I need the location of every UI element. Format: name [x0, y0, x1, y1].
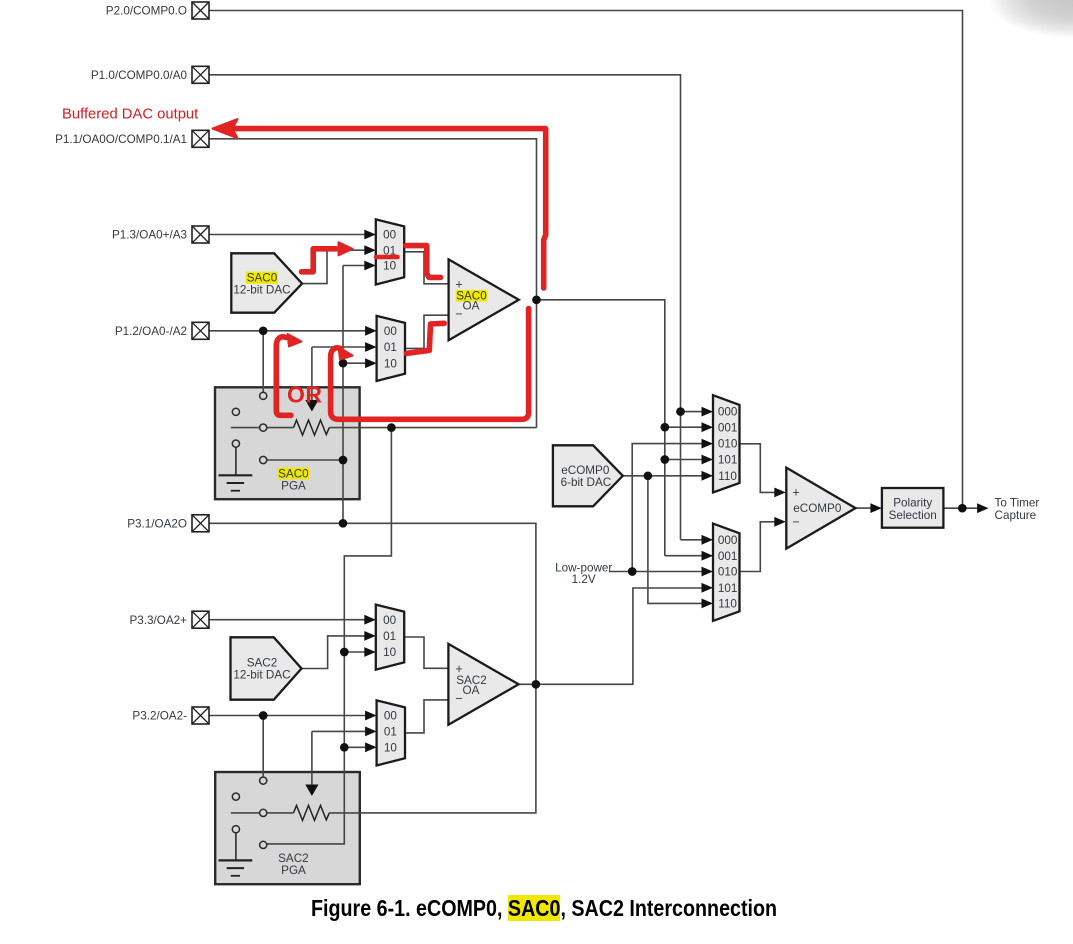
node timer capture junction [958, 504, 967, 513]
svg-text:12-bit DAC: 12-bit DAC [233, 669, 290, 682]
svg-text:00: 00 [383, 229, 397, 242]
mux U3A eCOMP0 + input mux [702, 395, 740, 492]
svg-text:To Timer: To Timer [995, 497, 1040, 510]
page corner shading [963, 0, 1073, 58]
ground GND1 in SAC0 PGA [219, 447, 253, 491]
mux U1B inverting input mux of SAC0 [365, 316, 405, 381]
svg-text:Capture: Capture [995, 509, 1037, 522]
block polarity selection [882, 488, 944, 528]
wire PGA0 switch row3 to cascade node [267, 459, 343, 461]
wire OA0 feedback horizontal to PGA resistor [329, 427, 536, 429]
svg-text:Polarity: Polarity [893, 497, 932, 510]
svg-text:−: − [455, 692, 462, 706]
annotation red trace DAC to mux1 01 [302, 242, 353, 271]
annotation red trace mux1 output [406, 246, 441, 278]
port pad P2.0/COMP0.O [106, 2, 209, 19]
SAC0 12-bit DAC block [231, 253, 302, 312]
resistor R2 SAC2 PGA feedback [294, 805, 330, 820]
svg-text:10: 10 [383, 260, 397, 273]
svg-text:PGA: PGA [281, 479, 306, 492]
svg-text:10: 10 [384, 741, 398, 754]
svg-text:OA: OA [463, 684, 480, 697]
wire mux6 01 to PGA2 resistor tap [312, 731, 368, 785]
svg-text:10: 10 [383, 646, 397, 659]
svg-text:eCOMP0: eCOMP0 [793, 502, 842, 515]
svg-text:PGA: PGA [281, 864, 306, 877]
node cascade to mux6 10 junction [340, 743, 349, 752]
arrow eCOMP0 output into polarity selection [870, 503, 882, 513]
port pad P3.2/OA2- [132, 707, 209, 724]
svg-text:Buffered DAC output: Buffered DAC output [62, 107, 198, 123]
node OA0 out to mux3 101 junction [660, 455, 669, 464]
wire OA2O cascade to mux1 10 / mux2 10 / PGA0 tap [343, 266, 368, 524]
wire PGA0 row2 left segment [231, 427, 294, 429]
node P1.2 branch junction [259, 326, 268, 335]
svg-text:101: 101 [718, 454, 738, 467]
wire mux6 output to OA2 - input [405, 700, 448, 733]
wire mux2 output to OA0 - input [405, 315, 449, 348]
wire P1.3/OA0+ to mux1 00 [209, 234, 367, 236]
node 1.2V reference junction [628, 567, 637, 576]
wire OA2 feedback to PGA2 resistor [329, 684, 536, 813]
wire P3.3/OA2+ to mux5 00 [209, 619, 367, 621]
svg-text:000: 000 [718, 406, 738, 419]
switch contacts SAC0 PGA [232, 392, 267, 463]
wire SAC0 DAC output to mux1 01 [302, 250, 367, 283]
PGA block SAC0 PGA box [215, 387, 360, 499]
wire eCOMP0 output to polarity selection [856, 507, 873, 509]
label SAC0 PGA [278, 467, 310, 492]
mux U3B eCOMP0 - input mux [702, 524, 740, 621]
mux U1A non-inverting input mux of SAC0 [364, 219, 404, 284]
label to timer capture [995, 497, 1040, 522]
wire low-power 1.2V reference to mux4 010 and mux3 010 [609, 444, 704, 572]
eCOMP0 6-bit DAC block [553, 445, 623, 506]
wire mux1 output to OA0 + input [404, 252, 448, 284]
svg-text:P3.2/OA2-: P3.2/OA2- [132, 710, 187, 723]
port pad P1.2/OA0-/A2 [115, 322, 209, 339]
svg-text:−: − [792, 515, 799, 529]
svg-text:Selection: Selection [889, 509, 937, 522]
svg-text:OA: OA [463, 299, 480, 312]
wire mux4 output to eCOMP0 - input [740, 522, 777, 572]
wire net P1.0/COMP0.0 vertical to mux3/mux4 000 inputs [209, 75, 704, 540]
wire net P2.0/COMP0.O to timer-capture node [209, 11, 963, 506]
svg-text:110: 110 [718, 470, 737, 483]
wire P3.2/OA2- to mux6 00 with branch to PGA2 switch [209, 716, 368, 778]
node P3.1 cascade junction [339, 519, 348, 528]
PGA block SAC2 PGA box [215, 772, 360, 884]
annotation red arrow from P1.2 branch [276, 334, 301, 415]
arrow to timer capture [977, 503, 989, 513]
switch contacts SAC2 PGA [232, 777, 267, 849]
svg-text:01: 01 [384, 341, 397, 354]
arrow into eCOMP0 - input [774, 517, 786, 527]
svg-text:P1.1/OA0O/COMP0.1/A1: P1.1/OA0O/COMP0.1/A1 [55, 133, 187, 146]
mux U2A non-inverting input mux of SAC2 [364, 605, 404, 670]
svg-text:P3.3/OA2+: P3.3/OA2+ [129, 614, 187, 627]
svg-text:00: 00 [384, 710, 398, 723]
wire OA0 output to mux3 001/101 and mux4 001 [537, 300, 705, 556]
svg-text:1.2V: 1.2V [572, 573, 596, 586]
annotation red trace mux2 output [407, 323, 445, 353]
caption figure 6-1 [311, 895, 777, 923]
arrow into PGA2 resistor tap [305, 785, 318, 797]
comparator U4 eCOMP0 [786, 468, 855, 549]
svg-text:110: 110 [718, 598, 737, 611]
label low-power 1.2V reference [555, 561, 612, 586]
wire net P1.1/OA0O from pad down to OA0 output node [209, 139, 537, 428]
svg-text:001: 001 [718, 421, 738, 434]
svg-text:P2.0/COMP0.O: P2.0/COMP0.O [106, 5, 187, 18]
port pad P1.1/OA0O/COMP0.1/A1 [55, 130, 209, 147]
node 6-bit DAC output junction [644, 471, 653, 480]
node PGA0 row3 junction [339, 456, 348, 465]
node P1.0 to mux3 000 junction [676, 407, 685, 416]
annotation red arrow to P1.1 pad [213, 119, 546, 288]
node mux2 10 junction [339, 359, 348, 368]
port pad P1.0/COMP0.0/A0 [91, 66, 209, 83]
wire mux2 01 to PGA0 resistor tap [312, 347, 368, 401]
wire eCOMP0 6-bit DAC output to mux3 110 and mux4 110 [623, 476, 704, 604]
svg-text:001: 001 [718, 550, 738, 563]
svg-text:101: 101 [718, 582, 738, 595]
wire PGA2 row2 left segment [231, 812, 294, 814]
svg-text:−: − [455, 307, 462, 321]
resistor R1 SAC0 PGA feedback [294, 420, 330, 435]
svg-text:10: 10 [384, 357, 398, 370]
wire mux3 output to eCOMP0 + input [740, 444, 777, 493]
svg-text:000: 000 [718, 534, 738, 547]
ground GND2 in SAC2 PGA [219, 833, 253, 876]
wire P1.2/OA0- to mux2 00 with branch to PGA0 switch [209, 331, 368, 392]
port pad P3.3/OA2+ [129, 611, 209, 628]
node P3.2 branch junction [259, 711, 268, 720]
svg-text:P1.3/OA0+/A3: P1.3/OA0+/A3 [112, 229, 187, 242]
node OA0 feedback branch junction [387, 423, 396, 432]
svg-text:01: 01 [384, 726, 397, 739]
svg-text:01: 01 [383, 630, 396, 643]
wire OA2 output to mux4 101 [519, 588, 704, 684]
svg-text:6-bit DAC: 6-bit DAC [561, 476, 612, 489]
svg-text:010: 010 [718, 566, 738, 579]
svg-text:P1.0/COMP0.0/A0: P1.0/COMP0.0/A0 [91, 69, 188, 82]
svg-text:00: 00 [383, 614, 397, 627]
wire OA0 output cascade down to SAC2 mux 10 inputs [267, 428, 392, 844]
port pad P1.3/OA0+/A3 [112, 226, 209, 243]
svg-text:00: 00 [384, 325, 398, 338]
wire polarity selection output to timer capture [943, 507, 979, 509]
svg-text:010: 010 [718, 438, 738, 451]
svg-text:+: + [792, 486, 799, 500]
node OA0 output junction [532, 295, 541, 304]
port pad P3.1/OA2O [127, 515, 209, 532]
annotation red feedback trace [331, 309, 529, 420]
svg-text:P3.1/OA2O: P3.1/OA2O [127, 517, 187, 530]
node cascade to mux5 10 junction [340, 648, 349, 657]
wire P3.1/OA2O to OA2 output node [209, 523, 536, 684]
op-amp SAC0 OA [449, 259, 519, 340]
node OA0 out to mux3 001 junction [660, 423, 669, 432]
label SAC2 PGA [278, 852, 309, 877]
wire mux5 output to OA2 + input [404, 637, 448, 668]
op-amp SAC2 OA [448, 644, 518, 725]
arrow into eCOMP0 + input [774, 488, 786, 498]
arrow into PGA0 resistor tap [305, 400, 318, 412]
svg-text:12-bit DAC: 12-bit DAC [233, 284, 290, 297]
mux U2B inverting input mux of SAC2 [365, 700, 405, 765]
svg-text:OR: OR [287, 382, 323, 408]
node OA2 output junction [532, 680, 541, 689]
wire SAC2 DAC output to mux5 01 [302, 636, 368, 669]
annotation red underline mux1 01 [376, 255, 398, 260]
SAC2 12-bit DAC block [231, 637, 302, 699]
svg-text:P1.2/OA0-/A2: P1.2/OA0-/A2 [115, 325, 187, 338]
